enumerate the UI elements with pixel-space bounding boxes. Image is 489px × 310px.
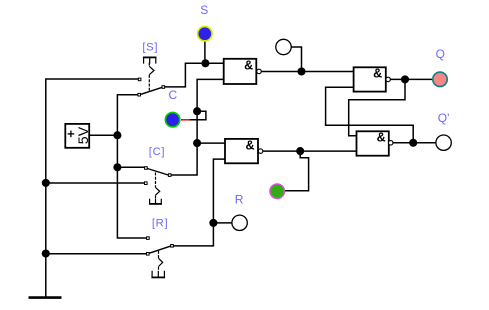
svg-text:[R]: [R] bbox=[152, 217, 168, 229]
svg-text:[S]: [S] bbox=[142, 42, 158, 54]
svg-text:R: R bbox=[235, 193, 244, 207]
svg-text:&: & bbox=[377, 130, 386, 144]
svg-text:S: S bbox=[200, 3, 208, 17]
svg-text:Q: Q bbox=[436, 47, 445, 61]
svg-text:C: C bbox=[169, 88, 178, 102]
svg-text:[C]: [C] bbox=[149, 146, 165, 158]
svg-text:Q': Q' bbox=[438, 111, 450, 125]
svg-text:5V: 5V bbox=[76, 126, 92, 144]
svg-text:&: & bbox=[245, 139, 254, 153]
svg-text:&: & bbox=[373, 66, 382, 80]
svg-text:&: & bbox=[244, 59, 253, 73]
